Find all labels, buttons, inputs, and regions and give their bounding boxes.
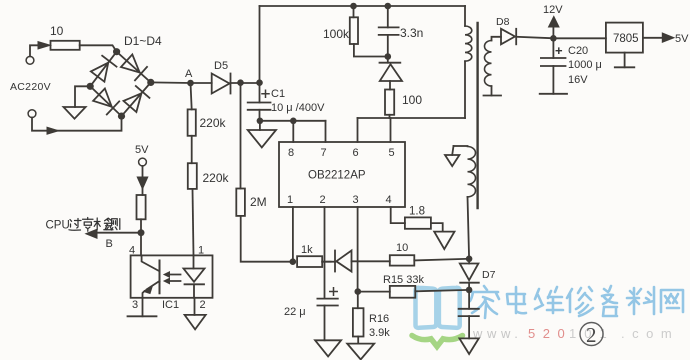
bridge diode D1 (left-top) (90, 56, 116, 82)
svg-text:100k: 100k (323, 27, 350, 41)
resistor 220k lower (188, 163, 197, 189)
wire live terminal to input resistor (30, 45, 38, 56)
过 (69, 219, 81, 231)
node B junction (138, 229, 145, 236)
watermark circled 2 (580, 323, 603, 348)
wire resistor to bridge top (80, 45, 117, 51)
junction D7 anode (466, 255, 473, 262)
junction snubber node (385, 53, 392, 60)
capacitor 3.3n (387, 6, 389, 27)
resistor 100 (389, 81, 391, 90)
svg-text:IC1: IC1 (162, 299, 179, 311)
维 (535, 287, 563, 313)
零 (83, 218, 94, 232)
wire pin3 down (357, 207, 359, 292)
transformer aux winding (454, 145, 468, 147)
capacitor 22u plus sign (330, 288, 337, 295)
svg-text:D8: D8 (496, 16, 510, 28)
ground (7805) (624, 53, 626, 68)
IC U1 OB2212AP (279, 142, 405, 207)
drain line pins 5,6 to primary (358, 117, 466, 119)
svg-text:3: 3 (353, 194, 359, 206)
ground (opto emitter, bar) (128, 315, 157, 317)
wire pin2 down through 1k node to 22u (324, 207, 326, 299)
svg-text:D5: D5 (214, 60, 228, 72)
svg-text:R16: R16 (369, 313, 389, 325)
wire 7805 output (643, 37, 662, 39)
regulator 7805 (606, 23, 643, 53)
wire pin1 down (292, 207, 294, 262)
svg-text:.com: .com (621, 326, 679, 341)
opto light arrows (169, 275, 181, 282)
arrow to CPU (left) (86, 229, 97, 238)
watermark text 家电维修资料网 (drawn strokes) (470, 286, 683, 318)
wire R15 to D7 cathode node (415, 290, 469, 291)
wire 1k to diode (322, 261, 331, 263)
capacitor VDD (468, 290, 470, 309)
ground (secondary, bar) (484, 95, 502, 97)
junction D5 / 2M (237, 79, 244, 86)
junction bridge bottom (118, 113, 125, 120)
svg-text:1.8: 1.8 (409, 206, 425, 218)
resistor pull-up (5V) (137, 195, 146, 219)
diode snubber clamp (cathode up) (387, 57, 389, 63)
junction bridge top (113, 48, 120, 55)
diode D5 (212, 74, 230, 94)
C1 plus sign (262, 90, 269, 97)
svg-text:4: 4 (386, 194, 392, 206)
node A junction (187, 80, 194, 87)
resistor 10 (input) (51, 41, 80, 50)
svg-text:OB2212AP: OB2212AP (308, 170, 366, 182)
svg-text:CPU: CPU (46, 220, 70, 232)
resistor 220k upper (188, 109, 196, 135)
svg-text:220k: 220k (203, 171, 230, 185)
svg-text:12V: 12V (543, 4, 563, 16)
svg-text:22 μ: 22 μ (284, 306, 306, 318)
svg-text:C1: C1 (271, 88, 285, 100)
料 (627, 287, 654, 314)
junction rail/100k (350, 3, 357, 10)
AC neutral terminal (28, 110, 36, 118)
resistor 1.8 (405, 217, 431, 228)
watermark book icon (416, 288, 460, 328)
svg-text:B: B (106, 238, 113, 250)
网 (661, 290, 683, 312)
wire diode anode to 10R (352, 260, 390, 262)
svg-text:4: 4 (129, 245, 135, 257)
AC live terminal (26, 56, 34, 64)
resistor R16 3.9k (357, 292, 359, 309)
capacitor C1 (259, 83, 261, 103)
资 (602, 286, 617, 316)
5V terminal (139, 158, 147, 166)
svg-text:5: 5 (389, 147, 395, 159)
transformer core (476, 23, 478, 208)
svg-text:D7: D7 (482, 269, 496, 281)
wire 12V node to 7805 (553, 37, 606, 39)
junction pin1 node (290, 258, 297, 265)
resistor 1k (297, 256, 322, 267)
transformer secondary 12V winding (484, 41, 491, 87)
wire 1.8R to ground (431, 223, 443, 232)
opto phototransistor (142, 255, 159, 270)
junction pin3/R15/R16 (355, 288, 362, 295)
svg-text:AC220V: AC220V (10, 81, 51, 93)
watermark url www.520101.com (472, 326, 679, 341)
svg-text:A: A (185, 68, 193, 80)
svg-text:2: 2 (200, 299, 206, 311)
wire pin7 down (325, 121, 327, 142)
wire D8 to 12V node (516, 37, 553, 39)
junction bridge right (147, 79, 154, 86)
ground (VDD cap) (459, 338, 478, 354)
ground (opto LED) (185, 315, 206, 330)
wire bridge left to ground (75, 86, 90, 107)
wire pin8 down (292, 121, 294, 142)
bridge diode D3 (left-bottom) (93, 88, 119, 114)
svg-text:100: 100 (402, 93, 422, 107)
current arrow (neutral) (47, 127, 59, 134)
ground (pin4) (434, 232, 454, 250)
wire C1 bottom to pins 8,7 (260, 120, 326, 122)
wire 5V terminal down (142, 166, 144, 177)
svg-text:R15 33k: R15 33k (383, 274, 424, 286)
wire arrow to pull-up resistor (142, 189, 144, 195)
bridge diode D2 (top-right) (121, 54, 147, 80)
svg-text:1000 μ: 1000 μ (568, 59, 602, 71)
wire resistor to node B (140, 219, 142, 232)
arrow down (5V) (137, 177, 148, 189)
wire pin4 to 1.8R (391, 207, 405, 223)
junction 12V node (550, 35, 557, 42)
ground (C1) (259, 121, 261, 130)
wire opto pin3 to ground (142, 298, 144, 317)
5V arrow (662, 33, 674, 42)
wire node B to opto pin4 (140, 233, 142, 256)
wire 1k to diode bar (322, 261, 335, 263)
optocoupler IC1 box (131, 255, 213, 297)
wire neutral to bridge bottom (32, 116, 122, 131)
svg-text:2: 2 (586, 323, 597, 347)
svg-text:220k: 220k (200, 116, 227, 130)
修 (567, 287, 593, 316)
wire node B to CPU arrow (97, 232, 141, 234)
resistor R15 33k (358, 291, 390, 293)
opto LED (193, 255, 195, 268)
capacitor 22u (317, 299, 337, 306)
bridge rectifier D1~D4 frame (90, 52, 151, 116)
wire 220k to opto pin1 (193, 189, 194, 256)
label 过零检测 (drawn strokes) (69, 218, 120, 232)
svg-text:D1~D4: D1~D4 (124, 34, 162, 48)
svg-text:2: 2 (320, 194, 326, 206)
wire opto pin2 to ground (194, 298, 196, 315)
junction rail/3.3n (385, 3, 392, 10)
svg-text:1k: 1k (301, 244, 313, 256)
svg-text:5V: 5V (675, 33, 689, 45)
svg-text:7: 7 (321, 147, 327, 159)
svg-text:5V: 5V (135, 144, 149, 156)
wire C1 node up to top rail (259, 6, 261, 83)
top rail (260, 5, 466, 7)
diode D7 (468, 259, 470, 264)
ground (C20, bar) (540, 93, 567, 95)
wire bridge right to node A (151, 81, 191, 84)
svg-text:C20: C20 (568, 45, 588, 57)
wire R16 to ground (357, 337, 359, 344)
svg-text:520: 520 (528, 326, 572, 341)
junction D7 cathode (466, 287, 473, 294)
bridge diode D4 (bottom-right) (123, 86, 149, 112)
wire 2M to pin1 node (241, 216, 293, 262)
svg-text:7805: 7805 (613, 33, 639, 45)
capacitor C20 (552, 38, 554, 58)
diode D9 (cathode left) (334, 251, 336, 272)
svg-text:16V: 16V (568, 74, 588, 86)
wire node A down to 220k (191, 83, 192, 109)
watermark green swoosh (412, 336, 463, 347)
wire pin6 up (357, 118, 359, 142)
ground (R16) (347, 344, 374, 360)
resistor 100k (snubber) (353, 6, 355, 17)
svg-text:10 μ /400V: 10 μ /400V (271, 102, 325, 114)
wire secondary top to D8 (492, 37, 502, 41)
svg-text:1: 1 (287, 194, 293, 206)
ground (22u) (315, 340, 341, 356)
svg-text:3.3n: 3.3n (400, 26, 423, 40)
svg-text:3: 3 (132, 299, 138, 311)
svg-text:8: 8 (288, 147, 294, 159)
wire node A to D5 (191, 82, 212, 84)
测 (106, 219, 120, 230)
svg-text:10: 10 (396, 242, 408, 254)
junction pin8 (290, 118, 297, 125)
wire secondary bottom to ground (491, 86, 493, 95)
12V arrow (552, 27, 554, 38)
wire D5 to C1 top node (231, 82, 260, 84)
svg-text:+: + (555, 43, 563, 58)
svg-text:1: 1 (198, 245, 204, 257)
resistor 10 (drive) (390, 255, 415, 265)
电 (507, 287, 526, 313)
ground (aux winding) (452, 146, 453, 155)
svg-text:2M: 2M (250, 195, 267, 209)
ground (bridge negative) (64, 107, 86, 119)
resistor 2M column: wire from D5 node (240, 83, 242, 189)
transformer T primary winding (464, 6, 466, 26)
resistor 2M (236, 189, 245, 216)
wire between 220k resistors (191, 136, 193, 163)
家 (470, 286, 499, 318)
wire pin5 up (390, 118, 392, 142)
svg-text:10: 10 (50, 24, 64, 38)
wire aux winding to D7 (468, 197, 470, 259)
检 (94, 218, 113, 230)
junction bridge left (87, 83, 94, 90)
wire 10R to D7 node (414, 259, 469, 261)
current arrow (live) (38, 42, 50, 49)
svg-text:3.9k: 3.9k (369, 327, 390, 339)
junction C1 bottom (257, 118, 264, 125)
svg-text:6: 6 (353, 147, 359, 159)
diode D8 (501, 29, 515, 45)
junction C1 top (256, 79, 263, 86)
